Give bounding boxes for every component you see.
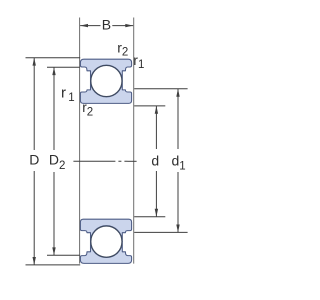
d extension line bottom xyxy=(134,216,165,218)
D2 extension line top xyxy=(47,66,80,68)
dimension d line xyxy=(155,106,157,217)
svg-text:D: D xyxy=(29,152,39,168)
centerline (bearing axis, dash-dot) xyxy=(73,160,136,162)
D extension line bottom xyxy=(26,264,81,266)
arrow D top xyxy=(33,58,36,66)
D2 extension line bottom xyxy=(47,254,80,256)
d1 extension line top xyxy=(134,88,187,90)
inner ring (bottom section) xyxy=(80,219,131,241)
svg-text:d: d xyxy=(151,152,159,168)
arrow D2 bottom xyxy=(52,247,55,255)
dimension B line xyxy=(80,25,133,27)
arrow B right xyxy=(125,24,133,27)
inner ring (top section) xyxy=(80,81,131,103)
arrow D2 top xyxy=(52,67,55,75)
bearing cross-section top half xyxy=(80,59,131,103)
D extension line top xyxy=(26,57,81,59)
ball (bottom section) xyxy=(91,226,122,257)
dimension d1 line xyxy=(177,89,179,233)
dimension D2 line xyxy=(53,67,55,255)
outer ring (top section) xyxy=(80,59,131,81)
d1 extension line bottom xyxy=(134,231,187,233)
side face line right (B extension) xyxy=(133,18,135,264)
arrow d1 top xyxy=(176,89,179,97)
outer ring (bottom section) xyxy=(80,242,131,264)
ball (top section) xyxy=(91,65,122,96)
arrow d top xyxy=(155,106,158,114)
arrow D bottom xyxy=(33,257,36,265)
bearing cross-section bottom half (mirrored) xyxy=(80,219,131,263)
dimension D line xyxy=(33,58,35,265)
d extension line top xyxy=(134,105,165,107)
arrow d1 bottom xyxy=(176,225,179,233)
svg-text:B: B xyxy=(102,17,111,33)
arrow B left xyxy=(80,24,88,27)
arrow d bottom xyxy=(155,209,158,217)
side face line left (B extension) xyxy=(79,18,81,264)
